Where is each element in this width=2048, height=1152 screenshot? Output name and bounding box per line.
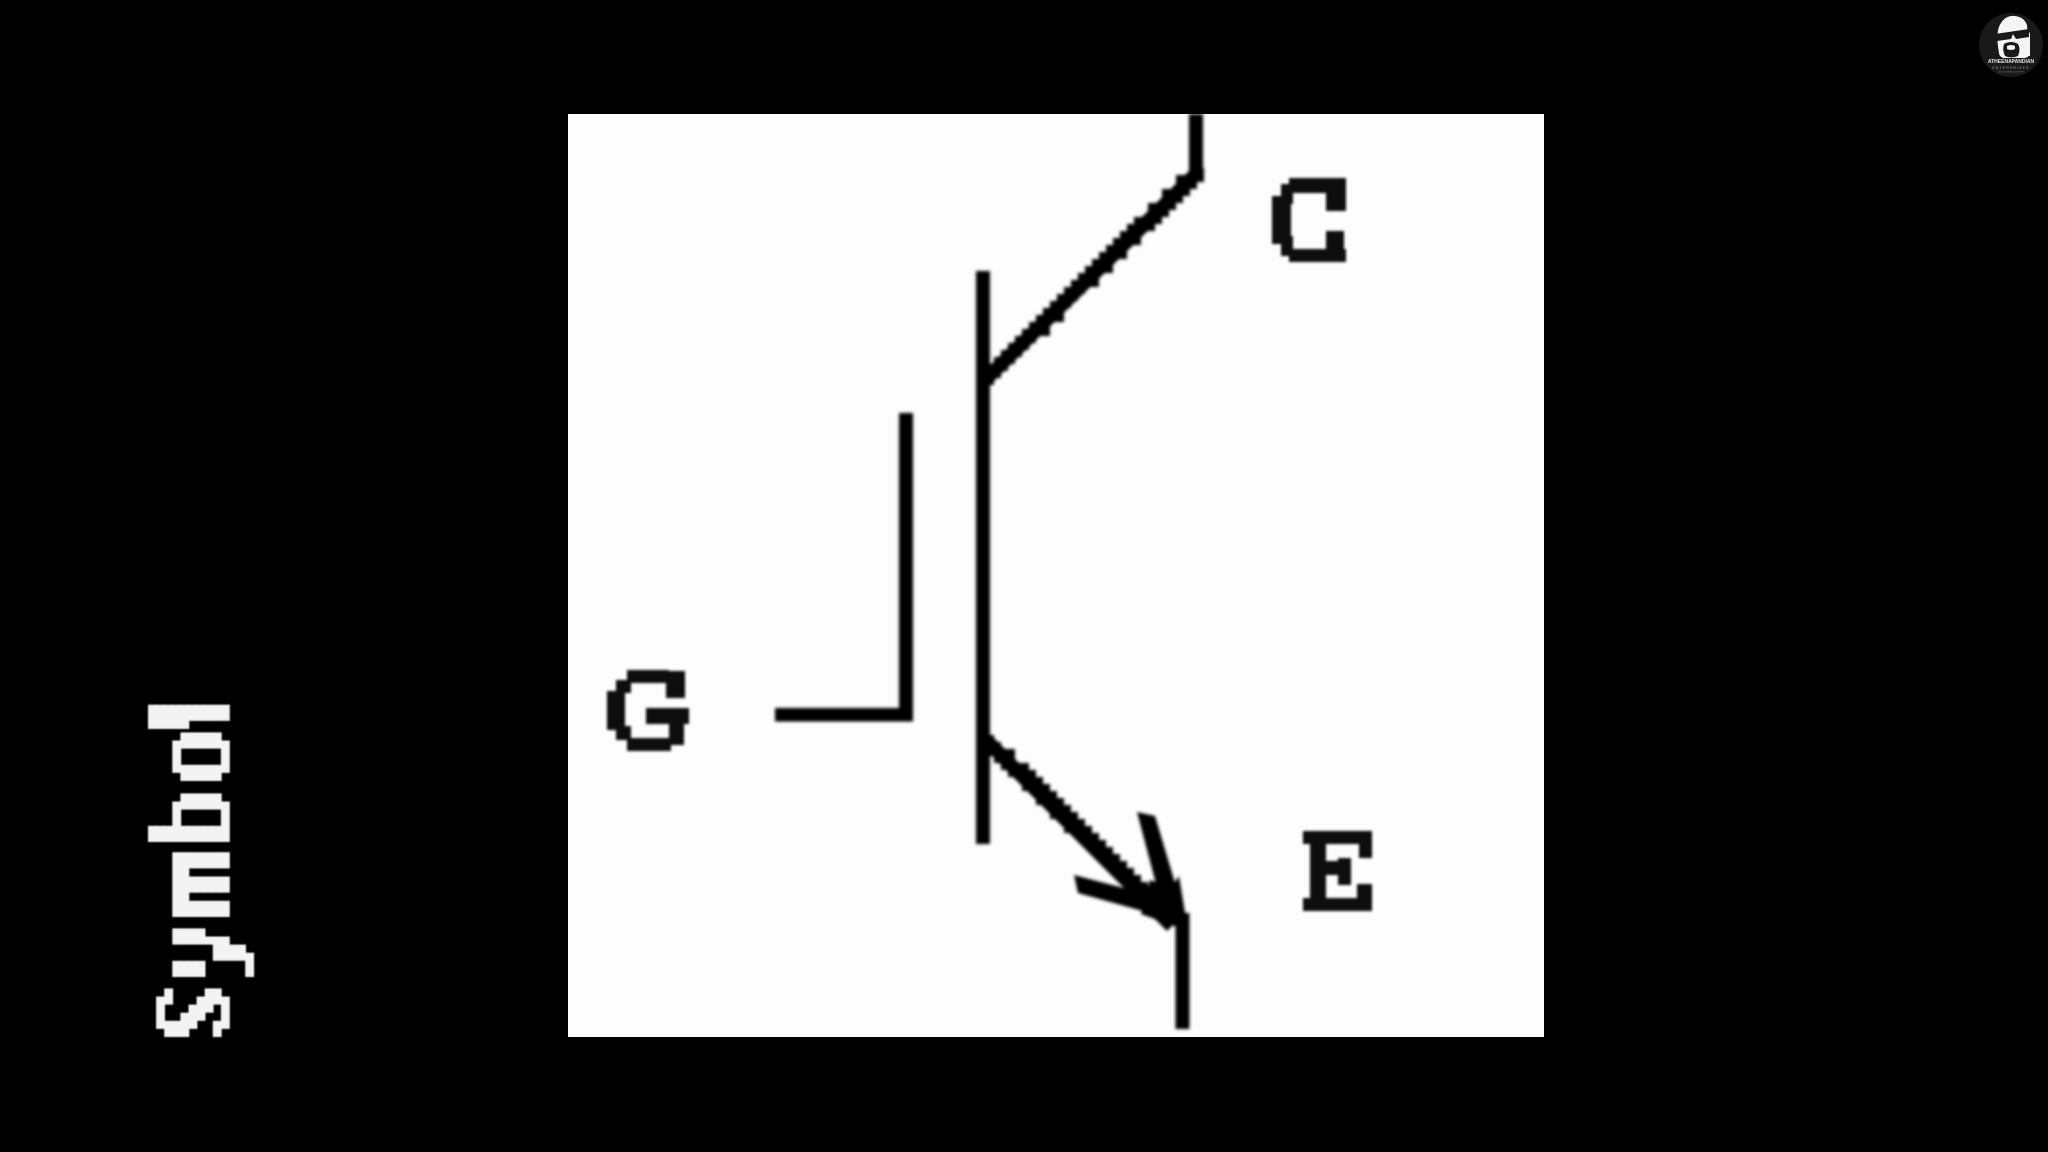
gate lead wire (horizontal) (775, 708, 913, 722)
letter l (pixel glyph, rotated) (148, 705, 157, 729)
emitter arrowhead barb upper (1137, 812, 1178, 899)
Symbol vertical caption (148, 705, 254, 1037)
emitter arrowhead tip fill (1141, 876, 1188, 931)
logo glasses (1995, 29, 2029, 41)
label G (pixel glyph) (607, 670, 689, 751)
emitter lead wire (vertical, down) (1176, 913, 1190, 1029)
logo goatee (2003, 42, 2019, 58)
letter y (pixel glyph, rotated) (172, 961, 181, 977)
label C (pixel glyph) (1272, 178, 1346, 262)
letter m (pixel glyph, rotated) (172, 852, 181, 917)
logo mouth (2007, 45, 2015, 50)
letter o (pixel glyph, rotated) (172, 741, 181, 773)
logo head (1997, 16, 2029, 58)
emitter diagonal wire (980, 735, 1177, 931)
logo circle (1979, 13, 2043, 77)
svg-text:your trusted partner: your trusted partner (1998, 70, 2024, 74)
white schematic panel (568, 114, 1544, 1037)
collector lead wire (vertical from panel top) (1189, 114, 1203, 174)
letter S (pixel glyph, rotated) (156, 997, 165, 1029)
svg-text:ATHEENAPANDIAN: ATHEENAPANDIAN (1988, 59, 2035, 65)
letter b (pixel glyph, rotated) (148, 826, 157, 842)
body bar (main vertical bar) (976, 271, 990, 844)
collector diagonal wire (980, 168, 1204, 385)
gate bar (899, 413, 913, 721)
channel logo (top-right) (1979, 13, 2043, 77)
logo right jaw (2024, 28, 2030, 56)
emitter arrowhead barb left (1074, 875, 1162, 915)
label E (pixel glyph) (1303, 831, 1372, 911)
